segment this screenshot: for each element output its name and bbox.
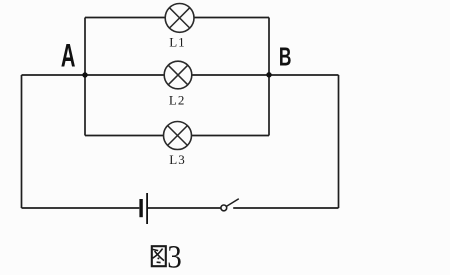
svg-text:A: A [61,38,76,74]
svg-text:B: B [279,42,292,71]
svg-text:L3: L3 [169,152,185,167]
svg-text:L2: L2 [169,92,185,107]
svg-text:3: 3 [167,238,182,275]
svg-text:L1: L1 [169,34,185,49]
